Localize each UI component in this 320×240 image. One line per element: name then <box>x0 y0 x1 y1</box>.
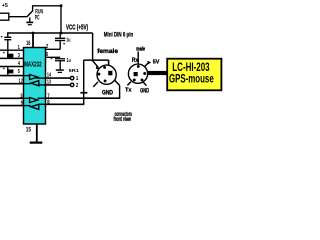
svg-text:+: + <box>63 42 66 47</box>
svg-text:GPS-mouse: GPS-mouse <box>169 71 214 85</box>
svg-text:Tx: Tx <box>125 87 131 93</box>
svg-text:+: + <box>3 66 6 71</box>
svg-text:1u: 1u <box>66 38 71 44</box>
svg-text:1: 1 <box>76 76 79 82</box>
svg-text:Mini DIN 6 pin: Mini DIN 6 pin <box>104 32 133 39</box>
svg-text:12: 12 <box>19 79 23 85</box>
svg-text:16: 16 <box>26 41 31 47</box>
svg-text:female: female <box>97 48 118 55</box>
svg-text:1u: 1u <box>66 58 71 64</box>
svg-text:GND: GND <box>140 88 149 95</box>
svg-text:5R1: 5R1 <box>69 68 80 74</box>
svg-text:15: 15 <box>26 128 32 134</box>
svg-text:+: + <box>1 34 4 39</box>
svg-text:MAX232: MAX232 <box>24 62 41 69</box>
svg-text:front view: front view <box>114 116 132 123</box>
svg-text:+5: +5 <box>2 3 9 9</box>
svg-text:5: 5 <box>18 69 20 75</box>
svg-text:GND: GND <box>102 89 113 96</box>
svg-text:+: + <box>50 56 53 61</box>
svg-text:VCC (+5V): VCC (+5V) <box>66 24 88 31</box>
svg-text:2: 2 <box>76 83 79 89</box>
svg-text:5V: 5V <box>153 60 160 66</box>
svg-text:1: 1 <box>18 45 20 51</box>
svg-text:3: 3 <box>18 53 20 59</box>
svg-text:+: + <box>3 50 6 55</box>
svg-text:Rx: Rx <box>132 57 139 64</box>
svg-text:4: 4 <box>18 61 20 67</box>
svg-text:PC: PC <box>35 14 40 21</box>
svg-text:male: male <box>136 46 145 52</box>
